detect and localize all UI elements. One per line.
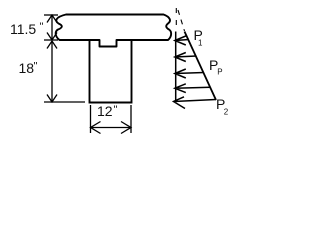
svg-text:11.5: 11.5 [10, 21, 36, 37]
slab outline (top horizontal member with break lines) [56, 15, 171, 47]
dimension 12: left arrowhead [91, 122, 101, 134]
dimension 18: top arrowhead [47, 41, 57, 49]
dimension 11.5: extension line top [44, 14, 58, 16]
svg-text:": " [40, 21, 44, 33]
svg-text:12: 12 [97, 103, 113, 119]
svg-text:1: 1 [198, 39, 203, 48]
svg-text:18: 18 [19, 60, 35, 76]
svg-text:P: P [217, 68, 222, 77]
dimension 11.5: top arrowhead [47, 15, 57, 23]
dimension 11.5: vertical dimension line [51, 15, 53, 40]
pressure arrow 1 [175, 36, 189, 45]
dimension 18: vertical dimension line [51, 41, 53, 102]
pressure arrow 2 [175, 53, 197, 62]
pressure arrow 4 [175, 84, 211, 93]
dimension 18: extension line bottom [44, 101, 85, 103]
dimension 11.5: bottom arrowhead [47, 33, 57, 41]
svg-text:": " [114, 104, 118, 116]
pressure diagram: left vertical boundary [175, 32, 177, 102]
dimension 11.5: extension line bottom [44, 39, 58, 41]
dimension 12: extension line left [90, 105, 92, 133]
dimension 12: extension line right [130, 105, 132, 133]
pressure arrow 3 [175, 69, 204, 78]
pressure diagram: dashed vertical extension above [175, 8, 177, 32]
svg-text:2: 2 [224, 108, 229, 117]
pressure diagram: hypotenuse [185, 32, 217, 101]
svg-text:": " [34, 61, 38, 73]
dimension 12: right arrowhead [121, 122, 131, 134]
dimension 12: horizontal dimension line [91, 127, 132, 129]
dimension 18: bottom arrowhead [47, 95, 57, 103]
pressure diagram: dashed slanted extension above [178, 10, 185, 31]
stem (vertical member) [90, 40, 132, 103]
pressure arrow 5 (bottom edge) [174, 97, 217, 109]
